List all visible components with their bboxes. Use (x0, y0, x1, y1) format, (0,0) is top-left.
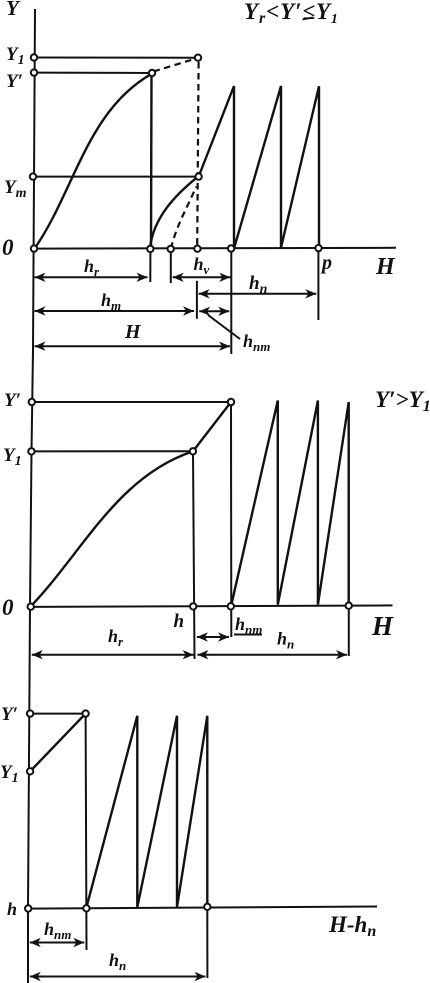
svg-text:0: 0 (2, 235, 14, 260)
svg-text:Y′: Y′ (6, 71, 23, 92)
svg-text:Y1: Y1 (0, 762, 19, 786)
svg-text:Y′>Y1: Y′>Y1 (375, 387, 430, 415)
svg-text:Y1: Y1 (6, 44, 25, 68)
svg-text:Ym: Ym (4, 177, 27, 201)
svg-text:H: H (375, 254, 396, 280)
svg-text:H: H (124, 321, 142, 343)
svg-text:hr: hr (84, 256, 100, 279)
svg-text:hnm: hnm (235, 614, 262, 637)
svg-text:hnm: hnm (243, 331, 270, 354)
svg-text:hn: hn (277, 629, 294, 652)
svg-text:Y′: Y′ (1, 704, 18, 725)
svg-text:H: H (371, 611, 394, 641)
svg-text:hr: hr (108, 626, 124, 649)
svg-text:hv: hv (194, 254, 210, 277)
svg-text:hn: hn (109, 950, 126, 973)
svg-text:hn: hn (249, 273, 268, 297)
svg-text:Yr<Y′≤Y1: Yr<Y′≤Y1 (244, 0, 339, 27)
svg-text:Y: Y (6, 0, 21, 20)
svg-text:p: p (320, 252, 332, 274)
svg-text:hnm: hnm (44, 919, 71, 942)
svg-text:hm: hm (101, 290, 121, 313)
svg-text:h: h (174, 611, 185, 632)
svg-text:h: h (7, 899, 17, 919)
svg-text:Y1: Y1 (3, 445, 22, 469)
svg-text:Y′: Y′ (4, 390, 21, 411)
svg-text:0: 0 (2, 595, 14, 620)
svg-text:H-hn: H-hn (328, 912, 376, 940)
